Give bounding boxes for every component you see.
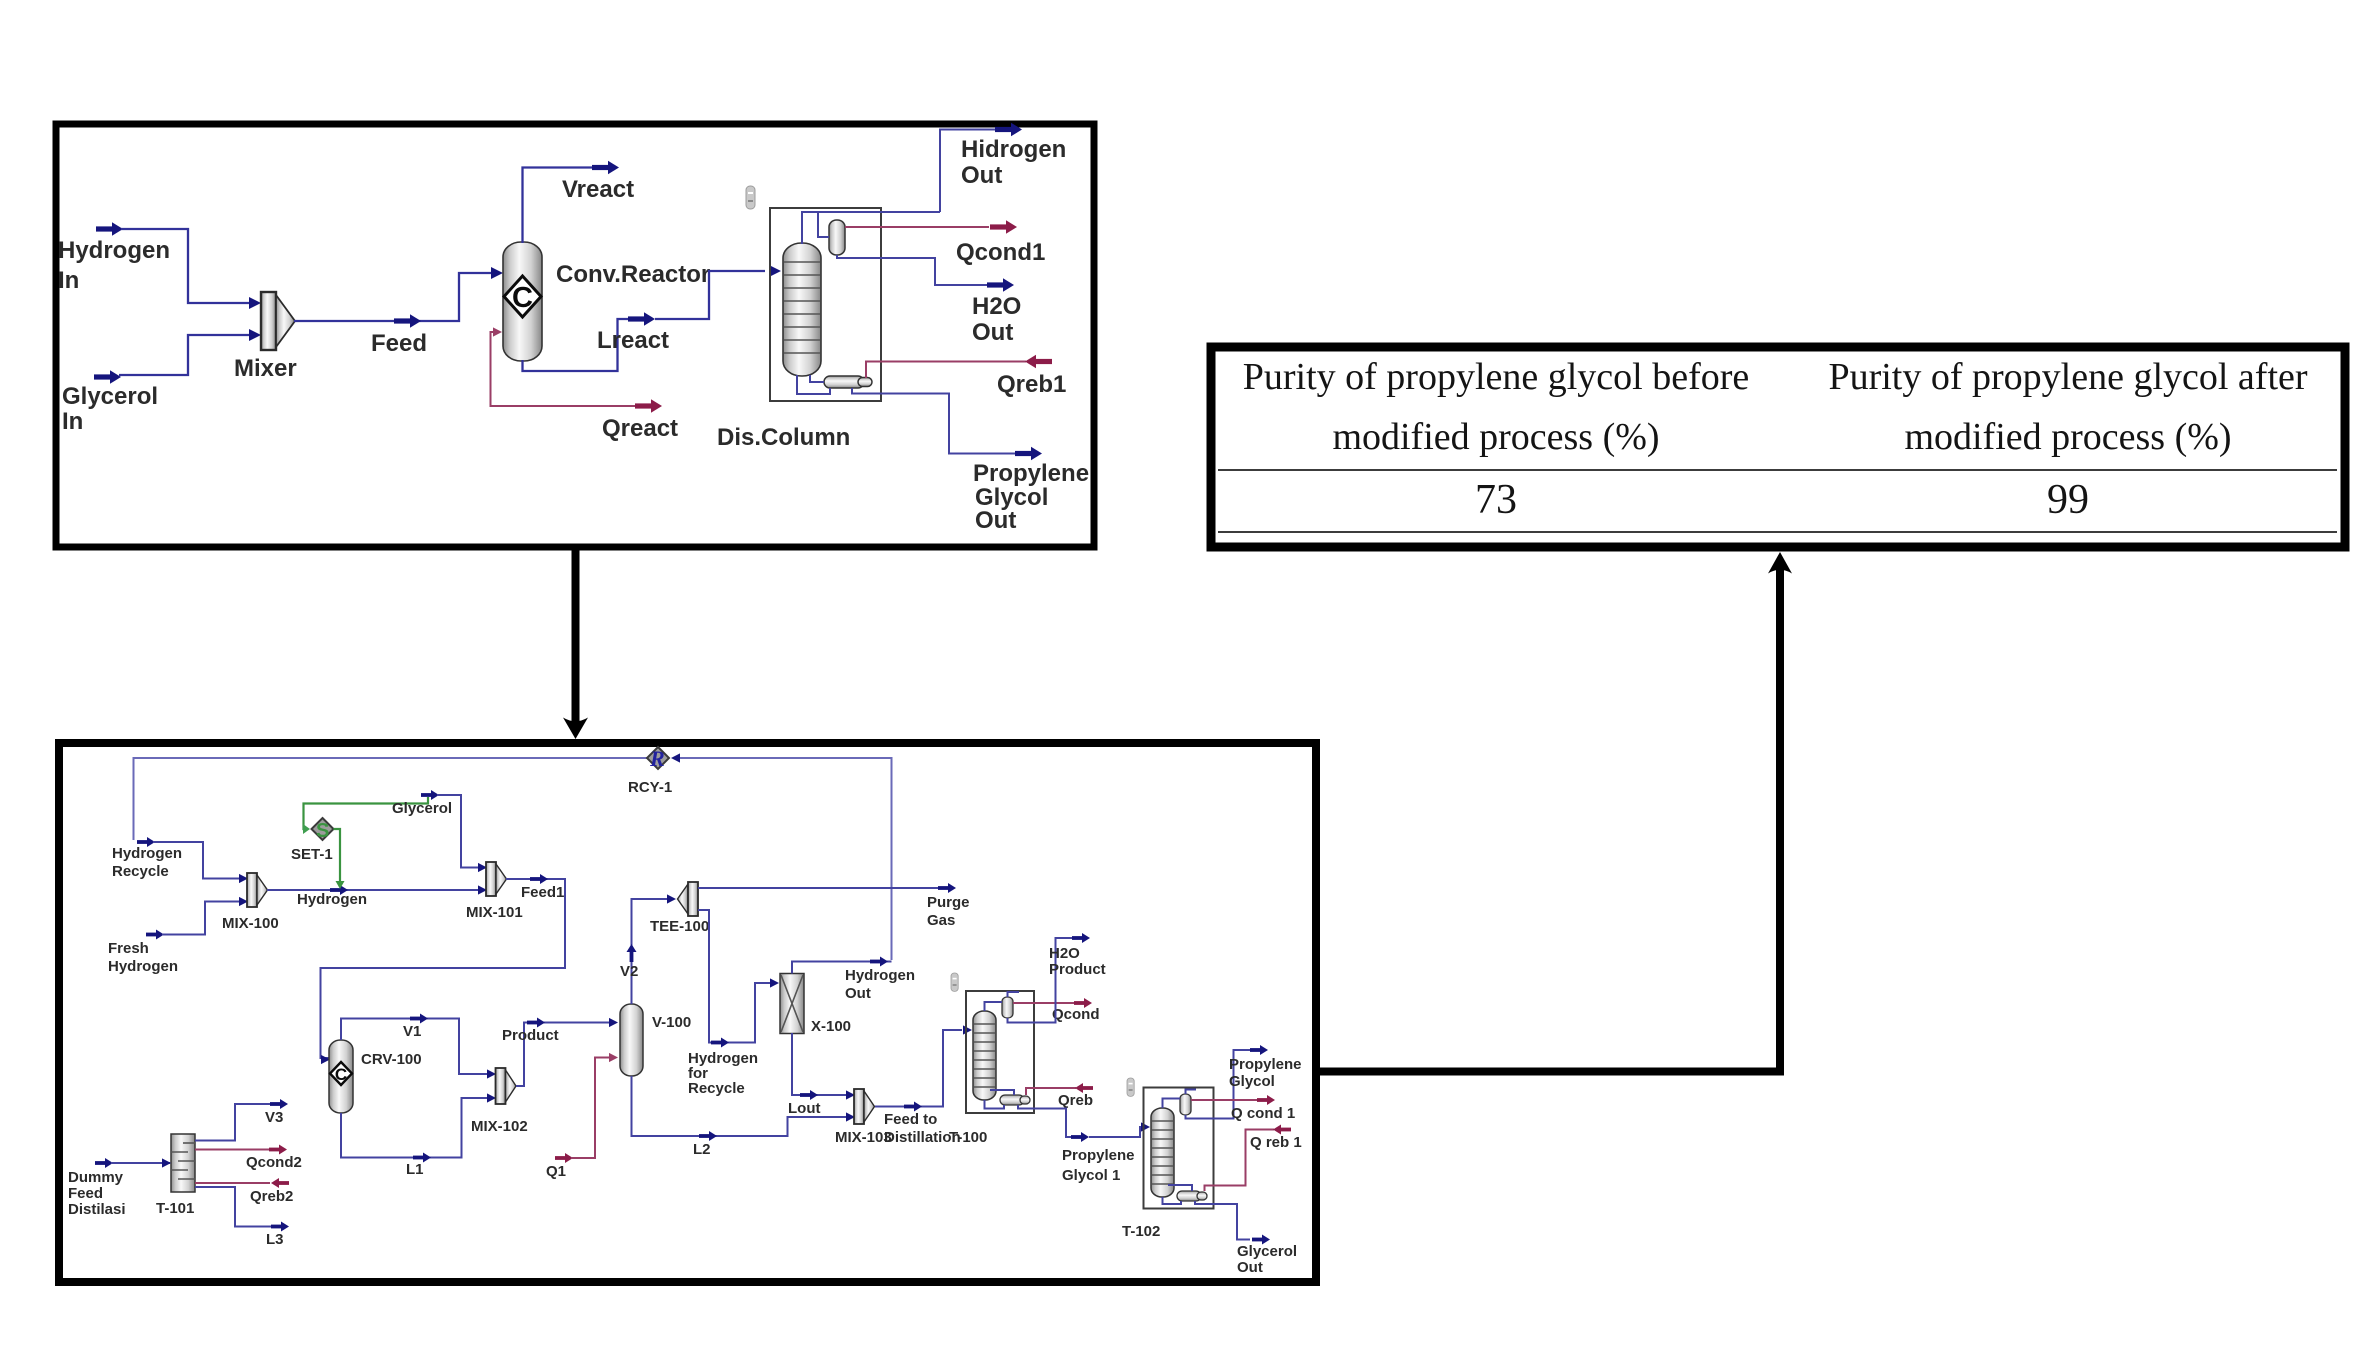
subflowsheet box T-100 <box>949 991 1034 1146</box>
stream Dummy Feed Distilasi <box>68 1158 171 1218</box>
reboiler (T-100) <box>1000 1095 1030 1105</box>
stream Hydrogen (MIX-100 to MIX-101) <box>267 885 487 908</box>
pin icon near Dis.Column <box>746 186 755 209</box>
svg-text:Product: Product <box>1049 961 1106 978</box>
reboiler (T-102) <box>1177 1191 1207 1201</box>
connector arrow panel1 to panel2 <box>563 550 588 739</box>
svg-text:Glycerol: Glycerol <box>392 800 452 817</box>
svg-text:Recycle: Recycle <box>112 863 169 880</box>
mixer MIX-102 <box>471 1068 528 1135</box>
svg-text:Out: Out <box>1237 1259 1263 1276</box>
energy stream Q1 <box>546 1053 618 1180</box>
wire recycle loop to RCY-1 <box>134 753 892 960</box>
svg-text:Qreact: Qreact <box>602 415 678 442</box>
connector arrow panel2 to table <box>1316 552 1792 1072</box>
svg-text:Out: Out <box>975 507 1016 534</box>
stream V2 <box>620 894 676 1004</box>
svg-text:V-100: V-100 <box>652 1014 691 1031</box>
svg-text:T-101: T-101 <box>156 1200 194 1217</box>
table header column 1 <box>1243 356 1750 458</box>
svg-text:Vreact: Vreact <box>562 176 634 203</box>
stream Propylene Glycol Out <box>852 388 1089 534</box>
energy stream Qcond2 <box>195 1145 302 1172</box>
wires inside T-102 <box>1163 1090 1197 1205</box>
condenser (Dis.Column) <box>829 220 845 255</box>
svg-text:Qreb: Qreb <box>1058 1092 1093 1109</box>
svg-text:Lreact: Lreact <box>597 327 669 354</box>
svg-text:Glycerol: Glycerol <box>62 383 158 410</box>
svg-text:Conv.Reactor: Conv.Reactor <box>556 261 710 288</box>
svg-text:modified process (%): modified process (%) <box>1332 416 1659 458</box>
svg-text:Qcond2: Qcond2 <box>246 1154 302 1171</box>
svg-text:L3: L3 <box>266 1231 284 1248</box>
mixer MIX-100 <box>222 873 279 932</box>
stream L3 <box>195 1187 289 1248</box>
svg-text:Propylene: Propylene <box>1062 1147 1135 1164</box>
stream Vreact <box>523 161 635 243</box>
panel: modified process flowsheet frame <box>59 743 1316 1282</box>
svg-text:V2: V2 <box>620 963 638 980</box>
svg-text:RCY-1: RCY-1 <box>628 779 672 796</box>
svg-text:MIX-102: MIX-102 <box>471 1118 528 1135</box>
column vessel (T-100) <box>973 1011 996 1100</box>
svg-text:L1: L1 <box>406 1161 424 1178</box>
svg-text:Purity of propylene glycol bef: Purity of propylene glycol before <box>1243 356 1750 398</box>
svg-text:Hydrogen: Hydrogen <box>108 958 178 975</box>
svg-text:Gas: Gas <box>927 912 955 929</box>
reboiler (Dis.Column) <box>824 376 872 388</box>
set operator SET-1 <box>291 818 334 863</box>
svg-text:R: R <box>649 746 665 771</box>
svg-text:Recycle: Recycle <box>688 1080 745 1097</box>
stream Hydrogen Recycle <box>112 837 248 883</box>
stream Propylene Glycol 1 <box>1018 1105 1150 1184</box>
svg-text:Mixer: Mixer <box>234 355 297 382</box>
wire column bottoms to reboiler <box>797 375 830 394</box>
svg-text:73: 73 <box>1475 477 1517 523</box>
condenser (T-102) <box>1180 1094 1191 1115</box>
svg-text:S: S <box>316 820 329 842</box>
reactor CRV-100 <box>329 1040 422 1113</box>
svg-text:Feed: Feed <box>371 330 427 357</box>
subflowsheet box T-102 <box>1122 1088 1214 1241</box>
svg-text:CRV-100: CRV-100 <box>361 1051 422 1068</box>
energy stream Qcond <box>1013 998 1100 1023</box>
stream Hydrogen for Recycle <box>688 910 779 1097</box>
wires inside T-100 <box>985 992 1020 1109</box>
svg-text:Glycol: Glycol <box>1229 1073 1275 1090</box>
component splitter X-100 <box>780 974 851 1036</box>
energy stream Qreb2 <box>195 1178 293 1205</box>
svg-text:Out: Out <box>972 319 1013 346</box>
svg-text:Qreb2: Qreb2 <box>250 1188 293 1205</box>
svg-text:Q cond 1: Q cond 1 <box>1231 1105 1295 1122</box>
stream Glycerol <box>392 790 487 872</box>
recycle operator RCY-1 <box>628 746 672 796</box>
stream Feed / wire mixer to reactor <box>294 267 503 357</box>
svg-text:Feed1: Feed1 <box>521 884 564 901</box>
svg-text:modified process (%): modified process (%) <box>1904 416 2231 458</box>
svg-text:Product: Product <box>502 1027 559 1044</box>
svg-text:T-100: T-100 <box>949 1129 987 1146</box>
reactor Conv.Reactor <box>503 242 710 361</box>
pin icon near T-100 <box>951 973 958 991</box>
svg-text:Fresh: Fresh <box>108 940 149 957</box>
stream L1 <box>341 1093 496 1178</box>
stream Feed to Distillation <box>875 1025 972 1146</box>
svg-text:L2: L2 <box>693 1141 711 1158</box>
energy stream Qcond1 <box>845 220 1045 266</box>
svg-text:In: In <box>58 267 79 294</box>
svg-text:Dis.Column: Dis.Column <box>717 424 850 451</box>
energy stream Qreact <box>491 327 679 442</box>
svg-text:X-100: X-100 <box>811 1018 851 1035</box>
table rule under header <box>1218 469 2337 471</box>
table header column 2 <box>1828 356 2307 458</box>
stream V3 <box>195 1099 288 1141</box>
svg-text:Propylene: Propylene <box>973 460 1089 487</box>
svg-text:C: C <box>512 282 533 314</box>
svg-text:Hydrogen: Hydrogen <box>845 967 915 984</box>
svg-text:MIX-101: MIX-101 <box>466 904 523 921</box>
svg-text:Qcond: Qcond <box>1052 1006 1100 1023</box>
svg-text:SET-1: SET-1 <box>291 846 333 863</box>
pin icon near T-102 <box>1127 1078 1134 1096</box>
separator V-100 <box>620 1004 691 1076</box>
svg-text:99: 99 <box>2047 477 2089 523</box>
svg-text:In: In <box>62 408 83 435</box>
stream Purge Gas <box>698 883 970 929</box>
stream Lreact <box>523 265 782 371</box>
svg-text:TEE-100: TEE-100 <box>650 918 709 935</box>
stream V1 <box>341 1014 496 1079</box>
svg-text:V3: V3 <box>265 1109 283 1126</box>
column vessel (Dis.Column) <box>783 243 821 376</box>
svg-text:Glycerol: Glycerol <box>1237 1243 1297 1260</box>
panel: simple process flowsheet frame <box>56 124 1094 547</box>
stream Product <box>502 1018 618 1087</box>
mixer MIX-103 <box>835 1089 892 1146</box>
stream Lout <box>788 1033 855 1117</box>
svg-text:Purge: Purge <box>927 894 970 911</box>
energy stream Q reb 1 <box>1205 1125 1302 1192</box>
svg-text:Distilasi: Distilasi <box>68 1201 126 1218</box>
stream Fresh Hydrogen <box>108 897 248 975</box>
column vessel (T-102) <box>1151 1108 1174 1197</box>
condenser (T-100) <box>1002 997 1013 1018</box>
svg-text:Purity of propylene glycol aft: Purity of propylene glycol after <box>1828 356 2307 398</box>
stream H2O Product <box>1008 933 1106 1023</box>
table: purity comparison frame <box>1211 347 2345 547</box>
svg-text:Propylene: Propylene <box>1229 1056 1302 1073</box>
stream Glycerol In <box>62 329 261 435</box>
wire SET-1 green links <box>303 797 428 889</box>
svg-text:MIX-100: MIX-100 <box>222 915 279 932</box>
svg-text:T-102: T-102 <box>1122 1223 1160 1240</box>
svg-text:Glycol 1: Glycol 1 <box>1062 1167 1120 1184</box>
svg-text:Feed to: Feed to <box>884 1111 937 1128</box>
svg-text:Feed: Feed <box>68 1185 103 1202</box>
svg-text:Q reb 1: Q reb 1 <box>1250 1134 1302 1151</box>
svg-text:Qcond1: Qcond1 <box>956 239 1045 266</box>
svg-text:Out: Out <box>845 985 871 1002</box>
stream Glycerol Out <box>1195 1201 1297 1276</box>
energy stream Qreb <box>1026 1083 1093 1109</box>
mixer MIX-101 <box>466 862 523 921</box>
energy stream Qreb1 <box>866 355 1066 398</box>
table bottom rule <box>1218 531 2337 533</box>
svg-text:H2O: H2O <box>1049 945 1080 962</box>
svg-text:Hydrogen: Hydrogen <box>112 845 182 862</box>
subflowsheet box Dis.Column <box>717 208 881 451</box>
stream Hydrogen Out (to recycle riser) <box>792 957 915 1003</box>
distillation column T-101 <box>156 1134 195 1217</box>
wire column overhead to condenser <box>802 212 940 244</box>
stream Hidrogen Out <box>940 123 1066 212</box>
stream Propylene Glycol <box>1186 1045 1302 1119</box>
energy stream Q cond 1 <box>1191 1095 1295 1122</box>
stream H2O Out <box>837 255 1021 346</box>
svg-text:Out: Out <box>961 162 1002 189</box>
svg-text:C: C <box>335 1065 347 1084</box>
svg-text:Lout: Lout <box>788 1100 820 1117</box>
svg-text:H2O: H2O <box>972 293 1021 320</box>
svg-text:Hydrogen: Hydrogen <box>58 237 170 264</box>
tee TEE-100 <box>650 882 709 935</box>
stream L2 <box>632 1076 856 1158</box>
svg-text:Hydrogen: Hydrogen <box>297 891 367 908</box>
svg-text:Hidrogen: Hidrogen <box>961 136 1066 163</box>
stream Feed1 <box>321 874 566 1064</box>
svg-text:Q1: Q1 <box>546 1163 566 1180</box>
svg-text:V1: V1 <box>403 1023 421 1040</box>
svg-text:Dummy: Dummy <box>68 1169 124 1186</box>
svg-text:Qreb1: Qreb1 <box>997 371 1066 398</box>
mixer Mixer <box>234 292 297 382</box>
stream Hydrogen In <box>58 222 261 309</box>
